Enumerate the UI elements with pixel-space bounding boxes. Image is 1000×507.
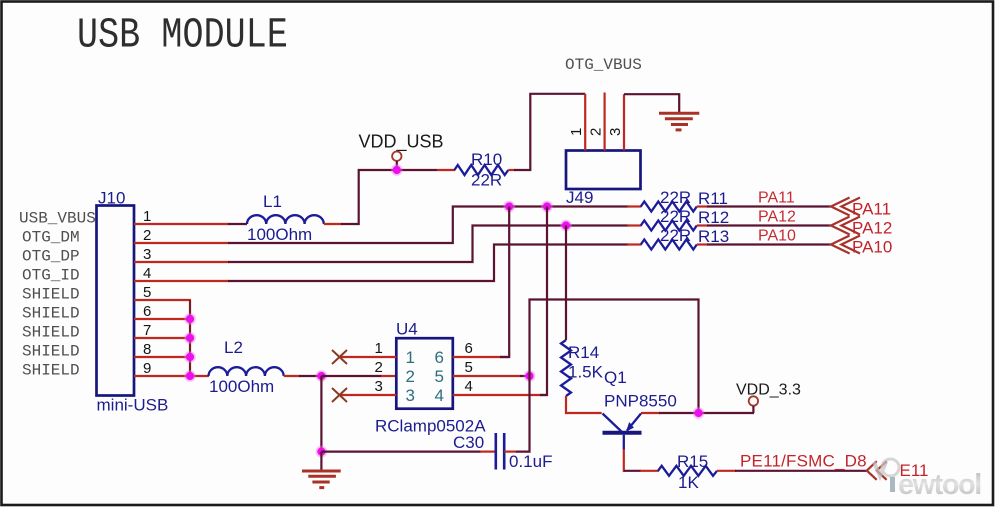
- svg-text:5: 5: [435, 367, 444, 386]
- svg-text:SHIELD: SHIELD: [22, 324, 80, 342]
- svg-text:2: 2: [375, 359, 383, 376]
- svg-text:OTG_ID: OTG_ID: [22, 267, 80, 285]
- junction dot bus pin7: [184, 332, 196, 344]
- connector J10 body: [97, 206, 135, 396]
- wire base to R15: [624, 470, 641, 472]
- svg-text:SHIELD: SHIELD: [22, 305, 80, 323]
- svg-text:PA11: PA11: [852, 200, 891, 219]
- resistor R15 zigzag: [658, 466, 717, 476]
- transistor Q1 base bar: [603, 431, 642, 435]
- svg-text:R15: R15: [677, 452, 708, 471]
- wire L2 output red: [284, 375, 300, 377]
- wire U4 pin6 to riser: [500, 356, 509, 358]
- svg-text:ewtool: ewtool: [898, 469, 981, 501]
- resistor R11 zigzag: [641, 202, 697, 212]
- connector J49 body: [566, 151, 641, 190]
- wire Q1 base down: [623, 435, 625, 450]
- wire J10 pin7 stub: [134, 337, 191, 339]
- wire riser row1 to U4 pin6: [500, 207, 509, 358]
- wire L1 output red: [324, 223, 342, 225]
- wire L1 output to riser: [341, 170, 437, 224]
- wire pin1 to L1: [228, 223, 247, 225]
- wire J10 pin8 stub: [134, 356, 191, 358]
- wire C30 right red: [504, 451, 517, 453]
- J49 pin2 wire: [603, 93, 605, 151]
- svg-text:OTG_VBUS: OTG_VBUS: [565, 56, 642, 74]
- svg-text:3: 3: [406, 386, 415, 405]
- J49 pin3 wire: [623, 94, 625, 150]
- wire J10 pin6 stub: [134, 318, 191, 320]
- svg-text:22R: 22R: [660, 226, 691, 245]
- svg-text:PA10: PA10: [852, 238, 892, 257]
- junction dot U4 pin5: [524, 370, 536, 382]
- wire J10 pin5 stub: [134, 299, 191, 301]
- wire U4 pin4 to riser: [540, 394, 547, 396]
- svg-text:PNP8550: PNP8550: [604, 392, 677, 411]
- svg-text:3: 3: [375, 378, 383, 395]
- wire R13 out net: [707, 243, 831, 245]
- svg-text:J49: J49: [566, 188, 593, 207]
- svg-text:L2: L2: [224, 338, 243, 357]
- wire J10 pin1 stub: [134, 223, 229, 225]
- junction dot bus pin9: [184, 370, 196, 382]
- svg-text:1: 1: [375, 340, 383, 357]
- inductor L2 coil: [209, 367, 284, 376]
- svg-text:1K: 1K: [678, 473, 699, 492]
- svg-text:C30: C30: [453, 433, 484, 452]
- wire OTG_DM net with jog up: [228, 207, 629, 244]
- wire ground node to C30: [321, 451, 481, 453]
- svg-text:4: 4: [465, 378, 473, 395]
- junction dot VDD_USB: [391, 164, 403, 176]
- svg-text:OTG_DM: OTG_DM: [22, 229, 80, 247]
- svg-text:9: 9: [143, 360, 151, 377]
- svg-text:1: 1: [143, 208, 151, 225]
- wire J10 pin4 stub: [134, 280, 229, 282]
- svg-text:6: 6: [435, 348, 444, 367]
- wire R11 out red: [697, 205, 708, 207]
- resistor R13 zigzag: [641, 240, 697, 250]
- wire row1 red stub into R11: [627, 205, 642, 207]
- junction dot VDD node: [693, 407, 705, 419]
- svg-text:2: 2: [588, 128, 605, 136]
- junction dot bus pin6: [184, 313, 196, 325]
- wire VDD_3.3 stub: [752, 406, 754, 413]
- svg-text:PA12: PA12: [758, 209, 796, 226]
- wire R10 output red: [508, 169, 515, 171]
- wire OTG_DP net with jog up: [228, 226, 629, 263]
- wire riser row1 to U4 pin4: [540, 207, 547, 396]
- port chevron PA11: [831, 198, 850, 216]
- wire VDD_USB stub: [396, 161, 398, 170]
- svg-text:1: 1: [568, 128, 585, 136]
- svg-text:PA12: PA12: [852, 219, 892, 238]
- svg-text:100Ohm: 100Ohm: [209, 377, 274, 396]
- transistor Q1 collector diagonal: [603, 414, 623, 433]
- svg-text:2: 2: [406, 367, 415, 386]
- wire U4 pin4 stub red: [453, 394, 541, 396]
- svg-text:100Ohm: 100Ohm: [247, 225, 312, 244]
- wire R11 out net: [707, 205, 831, 207]
- junction dot ground node: [316, 446, 328, 458]
- wire red stub into C30: [480, 451, 496, 453]
- svg-text:7: 7: [143, 322, 151, 339]
- svg-text:6: 6: [465, 340, 473, 357]
- ground symbol top right: [659, 113, 699, 130]
- wire J10 pin2 stub: [134, 242, 229, 244]
- wire U4 pin1 stub: [340, 356, 396, 358]
- svg-text:3: 3: [607, 128, 624, 136]
- wire row3 red stub into R13: [627, 243, 642, 245]
- wire R15 out red: [717, 470, 736, 472]
- svg-text:8: 8: [143, 341, 151, 358]
- junction dot L2 out: [316, 370, 328, 382]
- wire dot to U4 pin2: [321, 375, 382, 377]
- wire R12 out: [697, 224, 708, 226]
- junction dot row1 x547: [541, 201, 553, 213]
- svg-text:R10: R10: [471, 150, 502, 169]
- svg-text:22R: 22R: [660, 207, 691, 226]
- capacitor C30 left plate: [494, 433, 497, 470]
- ground stem bottom: [320, 452, 322, 470]
- wire R15 out net: [735, 470, 867, 472]
- svg-text:VDD_USB: VDD_USB: [359, 132, 444, 153]
- wire R14 bottom: [566, 396, 602, 413]
- wire C30 to power riser: [516, 300, 699, 452]
- wire J10 pin3 stub: [134, 261, 229, 263]
- wire J49 pin3 to ground: [624, 94, 679, 112]
- wire to R10 red: [437, 169, 455, 171]
- svg-text:SHIELD: SHIELD: [22, 343, 80, 361]
- wire U4 pin2 red stub: [381, 375, 396, 377]
- svg-text:R13: R13: [698, 227, 729, 246]
- wire riser row2 to R14: [565, 226, 567, 341]
- wire row2 red stub into R12: [627, 224, 642, 226]
- no-connect X pin1: [332, 350, 347, 364]
- port chevron PA10: [831, 236, 850, 254]
- port chevron E11: [867, 461, 877, 480]
- svg-text:USB MODULE: USB MODULE: [77, 10, 288, 59]
- wire R12 out net: [707, 224, 831, 226]
- no-connect X pin3: [332, 388, 347, 402]
- svg-text:22R: 22R: [660, 188, 691, 207]
- junction dot row1 x509: [503, 201, 515, 213]
- wire shield bus vertical: [189, 300, 191, 376]
- resistor R10 zigzag: [454, 165, 508, 175]
- junction dot bus pin8: [184, 351, 196, 363]
- wire U4 pin5 stub red: [453, 375, 521, 377]
- ground symbol bottom: [302, 471, 341, 488]
- wire R13 out: [697, 243, 708, 245]
- watermark viewtool logo: [874, 459, 981, 501]
- transistor Q1 emitter diagonal with arrow: [627, 414, 641, 431]
- svg-text:PA10: PA10: [758, 228, 796, 245]
- wire U4 pin5 to power riser: [520, 375, 530, 377]
- svg-text:1.5K: 1.5K: [568, 363, 604, 382]
- wire J10 pin9 stub: [134, 375, 209, 377]
- svg-text:R11: R11: [698, 189, 728, 208]
- wire OTG_ID net with jog up: [228, 245, 629, 282]
- power port VDD_USB circle: [392, 152, 401, 161]
- svg-text:U4: U4: [396, 320, 418, 339]
- svg-text:L1: L1: [263, 192, 282, 211]
- IC U4 body: [396, 338, 453, 409]
- wire R10 output riser to top: [514, 94, 585, 170]
- svg-text:PE11/FSMC_D8: PE11/FSMC_D8: [740, 452, 867, 471]
- svg-text:USB_VBUS: USB_VBUS: [19, 210, 96, 228]
- svg-text:0.1uF: 0.1uF: [509, 452, 552, 471]
- svg-text:PA11: PA11: [758, 190, 795, 207]
- svg-text:6: 6: [143, 303, 151, 320]
- svg-text:2: 2: [143, 227, 151, 244]
- port chevron PA12: [831, 217, 850, 235]
- wire U4 pin3 stub: [340, 394, 396, 396]
- svg-text:5: 5: [143, 284, 151, 301]
- svg-text:VDD_3.3: VDD_3.3: [736, 382, 801, 399]
- svg-text:22R: 22R: [471, 171, 502, 190]
- junction dot row2 x566: [560, 220, 572, 232]
- wire ground drop from L2 dot: [320, 376, 322, 452]
- inductor L1 coil: [247, 215, 324, 224]
- svg-text:SHIELD: SHIELD: [22, 362, 80, 380]
- wire L2 output to dot: [299, 375, 322, 377]
- svg-text:OTG_DP: OTG_DP: [22, 248, 80, 266]
- resistor R14 zigzag vertical: [561, 340, 571, 396]
- power port VDD_3.3 circle: [749, 396, 758, 405]
- svg-text:4: 4: [435, 386, 444, 405]
- svg-text:3: 3: [143, 246, 151, 263]
- svg-text:4: 4: [143, 265, 151, 282]
- svg-text:R12: R12: [698, 208, 729, 227]
- svg-text:R14: R14: [568, 343, 599, 362]
- svg-text:1: 1: [406, 348, 415, 367]
- svg-text:5: 5: [465, 359, 473, 376]
- J49 pin1 wire: [584, 94, 586, 151]
- capacitor C30 right plate: [503, 433, 506, 470]
- wire Q1 emitter to VDD junction: [641, 412, 660, 414]
- resistor R12 zigzag: [641, 221, 697, 231]
- svg-text:J10: J10: [98, 189, 125, 208]
- svg-text:mini-USB: mini-USB: [97, 396, 169, 415]
- svg-text:SHIELD: SHIELD: [22, 286, 80, 304]
- svg-text:Q1: Q1: [604, 368, 627, 387]
- wire U4 pin6 stub red: [453, 356, 501, 358]
